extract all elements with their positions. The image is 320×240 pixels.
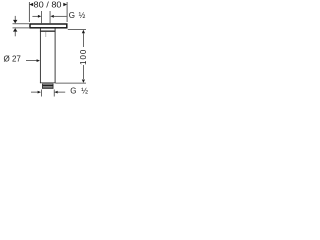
pipe right wall	[54, 28, 57, 83]
extension line G1/2 right (x=50)	[49, 11, 52, 23]
svg-text:½: ½	[79, 11, 86, 20]
svg-text:80 / 80: 80 / 80	[34, 1, 63, 10]
svg-text:½: ½	[81, 87, 88, 96]
threaded stub G1/2 (hatched block)	[42, 84, 53, 89]
dimension G1/2 top: left segment	[32, 15, 38, 18]
bottom thread extension line right (x=54.2)	[53, 90, 56, 97]
bottom G1/2 dim: left segment	[31, 91, 38, 94]
pipe collar line below plate	[40, 31, 56, 32]
extension line bottom for 100 dim (y=83.1)	[56, 82, 87, 85]
100 dim lower arrow (down)	[82, 65, 85, 79]
extension line right (plate edge, x=67)	[66, 2, 69, 22]
plate thickness extension line top (y=23.8)	[13, 22, 30, 25]
thickness dim lower arrow (up)	[13, 28, 17, 32]
extension line left (plate edge, x=29.3)	[28, 2, 31, 22]
100 dim upper arrow (up)	[82, 30, 85, 33]
bottom G1/2 dim: right segment to label	[58, 91, 65, 94]
svg-text:G: G	[70, 87, 76, 96]
dimension G1/2 top: left-pointing arrow	[50, 15, 53, 18]
bottom step line where pipe meets thread	[40, 81, 56, 84]
plate thickness extension line bottom (y=27.9)	[13, 27, 30, 30]
extension line top for 100 dim (y=29.6)	[68, 28, 86, 31]
arrow to pipe wall	[37, 59, 40, 62]
svg-text:G: G	[69, 11, 75, 20]
leader line for diameter 27	[26, 59, 37, 62]
bottom thread extension line left (x=41.4)	[40, 90, 43, 97]
dimension 80/80 left arrow	[29, 3, 33, 6]
dimension 80/80 right arrow	[63, 3, 67, 6]
dimension G1/2 top: right-pointing arrow	[38, 15, 41, 18]
bottom G1/2 dim: left-pointing arrow	[54, 91, 57, 94]
dimension G1/2 top: right segment to label	[54, 15, 67, 18]
svg-text:Ø 27: Ø 27	[4, 55, 22, 64]
flange plate (80x80 escutcheon), cross-section rectangle	[30, 24, 67, 28]
svg-text:100: 100	[79, 49, 88, 65]
faint inner reflection line	[44, 32, 47, 37]
extension line G1/2 left (x=41.6)	[40, 11, 43, 23]
bottom G1/2 dim: right-pointing arrow	[38, 91, 41, 94]
pipe left wall	[39, 28, 42, 83]
thickness dim upper arrow (down)	[14, 16, 17, 20]
